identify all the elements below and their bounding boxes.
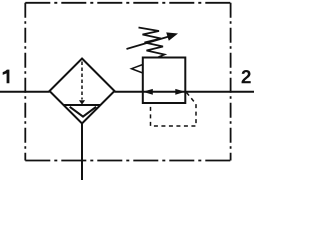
filter condensate arrowhead bbox=[79, 100, 85, 104]
regulator spring bbox=[139, 28, 165, 58]
regulator flow arrowhead left bbox=[143, 89, 153, 95]
port label 1 bbox=[3, 70, 10, 84]
regulator R1 body (square) bbox=[143, 58, 186, 104]
enclosure frame bottom edge bbox=[25, 160, 230, 162]
regulator pilot feedback dashed line bbox=[151, 93, 197, 127]
wire: main flow line left segment (port 1 to filter) bbox=[0, 91, 50, 93]
port label 2 bbox=[242, 70, 251, 83]
regulator adjustment arrow shaft bbox=[127, 37, 169, 49]
enclosure frame left edge bbox=[24, 3, 26, 161]
filter separator chord bbox=[64, 104, 101, 106]
wire: main flow line middle+right segment (filter to port 2) bbox=[115, 91, 255, 93]
regulator relief vent triangle bbox=[132, 65, 143, 74]
enclosure frame right edge bbox=[230, 3, 232, 161]
filter water-separator V bbox=[70, 107, 96, 117]
wire: condensate drain line bbox=[81, 124, 83, 181]
regulator adjustment arrowhead bbox=[166, 32, 178, 40]
regulator flow arrowhead right bbox=[175, 89, 185, 95]
filter F1 body (diamond) bbox=[50, 59, 115, 124]
filter condensate dashed centerline bbox=[81, 62, 83, 100]
enclosure frame (dash-dot) top edge bbox=[25, 2, 230, 4]
